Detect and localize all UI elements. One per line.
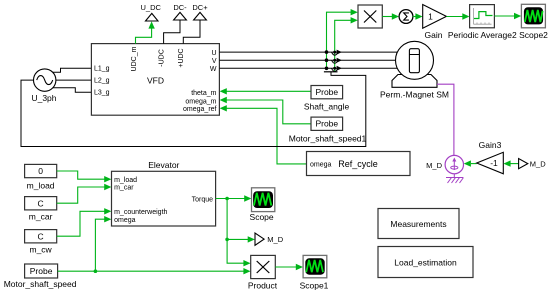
node dot M_D branch (225, 238, 229, 242)
wire Product to Scope1 (275, 266, 296, 268)
wire C to m_car (57, 187, 105, 203)
svg-text:M_D: M_D (267, 235, 283, 244)
svg-text:Scope2: Scope2 (519, 30, 548, 40)
port M_D (out) (255, 233, 264, 245)
svg-text:theta_m: theta_m (191, 90, 216, 97)
svg-text:Torque: Torque (192, 197, 214, 204)
wire to M_D outport (227, 238, 248, 240)
wire neutral loop from U_3ph around bottom to phase-line bar (21, 72, 366, 147)
svg-text:DC+: DC+ (192, 3, 208, 12)
wire DC- to VFD (164, 20, 180, 44)
block Periodic Average2 (470, 5, 495, 28)
wire C to m_counterweigth (57, 211, 105, 236)
wire phase W (219, 67, 398, 69)
svg-text:Probe: Probe (315, 119, 338, 129)
wire theta_m (green) (226, 90, 311, 92)
block Ref_cycle (307, 152, 411, 176)
svg-text:m_counterweigth: m_counterweigth (114, 209, 167, 216)
svg-text:Motor_shaft_speed: Motor_shaft_speed (4, 279, 77, 289)
wire DC+ to VFD (183, 20, 200, 44)
wire L1 from U_3ph to VFD (53, 68, 92, 72)
wire UDC_m to U_DC port (green) (136, 23, 152, 44)
wire M_D inport to gain3 (510, 163, 519, 165)
block Load_estimation (378, 247, 473, 278)
scope Scope1 (303, 255, 327, 277)
block Probe (Shaft_angle) (311, 86, 343, 99)
node dot torque wire (225, 197, 229, 201)
svg-text:m_cw: m_cw (29, 245, 52, 255)
svg-text:Periodic Average2: Periodic Average2 (448, 30, 517, 40)
block Measurements (378, 209, 459, 239)
wire torque branch down (227, 199, 244, 264)
svg-text:C: C (38, 231, 44, 241)
svg-text:DC-: DC- (173, 3, 187, 12)
block Product (251, 255, 276, 278)
wire tap A (green, under phase lines) (327, 12, 352, 68)
svg-text:m_car: m_car (114, 185, 134, 192)
svg-text:omega: omega (310, 162, 332, 169)
svg-text:Motor_shaft_speed1: Motor_shaft_speed1 (289, 133, 367, 143)
arrowheads on phase lines (337, 50, 342, 55)
svg-text:+UDC: +UDC (178, 48, 185, 67)
svg-text:Elevator: Elevator (148, 160, 179, 170)
svg-text:Ref_cycle: Ref_cycle (338, 159, 378, 169)
port U_DC (146, 13, 159, 21)
svg-text:Measurements: Measurements (390, 219, 446, 229)
ground (purple) (453, 174, 455, 177)
svg-text:m_car: m_car (29, 212, 53, 222)
wire gain3 to torque source (471, 163, 477, 165)
svg-text:L3_g: L3_g (94, 90, 110, 97)
port M_D (in) (519, 159, 528, 169)
svg-text:Gain: Gain (425, 30, 443, 40)
wire machine to torque source (purple) (437, 84, 454, 155)
block VFD (91, 44, 219, 116)
svg-text:-UDC: -UDC (159, 49, 166, 67)
wire phase V (219, 59, 396, 61)
wire Torque to Scope (216, 198, 245, 200)
wire omega branch (95, 219, 104, 271)
svg-text:Perm.-Magnet SM: Perm.-Magnet SM (380, 90, 449, 100)
svg-text:M_D: M_D (530, 160, 546, 169)
svg-text:0: 0 (38, 166, 43, 176)
svg-text:Probe: Probe (315, 87, 338, 97)
svg-text:Scope1: Scope1 (300, 280, 329, 290)
svg-text:Product: Product (248, 280, 278, 290)
gain Gain (423, 5, 447, 29)
block Elevator (112, 171, 216, 226)
block product X (power) (358, 5, 382, 28)
machine Perm.-Magnet SM (396, 41, 434, 79)
wire phase U (219, 51, 398, 53)
gain Gain3 (477, 152, 504, 174)
block constant 0 (25, 164, 57, 177)
svg-text:U: U (211, 50, 216, 57)
svg-text:L2_g: L2_g (94, 78, 110, 85)
block Probe (Motor_shaft_speed) (25, 264, 58, 278)
scope Scope (252, 188, 275, 212)
svg-text:C: C (38, 198, 44, 208)
svg-text:omega_ref: omega_ref (183, 106, 217, 113)
node dot probe wire (94, 269, 98, 273)
svg-text:Probe: Probe (30, 266, 53, 276)
wire gain to periodic average (446, 16, 463, 18)
port DC+ (194, 12, 207, 20)
wire neutral rail over green crossing (272, 146, 282, 148)
wire L2 from U_3ph to VFD (56, 79, 92, 81)
port DC- (174, 12, 187, 20)
wire omega_m (green) (226, 100, 311, 124)
node dots on phase lines (325, 50, 329, 54)
svg-text:omega: omega (114, 217, 136, 224)
svg-text:L1_g: L1_g (94, 65, 110, 72)
block constant C (m_car) (25, 197, 57, 210)
svg-text:W: W (210, 66, 217, 73)
wire 0 to m_load (57, 171, 105, 179)
wire probe to product input2 (green) (58, 270, 245, 272)
svg-text:VFD: VFD (147, 76, 164, 86)
block constant C (m_cw) (25, 230, 57, 243)
svg-text:UDC_m: UDC_m (131, 46, 138, 71)
block Probe (Motor_shaft_speed1) (311, 117, 343, 130)
source M_D torque (purple) (445, 155, 463, 173)
wire L3 from U_3ph to VFD (53, 88, 92, 93)
svg-text:1: 1 (428, 12, 433, 22)
scope Scope2 (521, 4, 545, 28)
node neutral bar (324, 71, 338, 73)
svg-text:Scope: Scope (250, 212, 274, 222)
svg-text:m_load: m_load (114, 177, 137, 184)
svg-text:U_DC: U_DC (140, 3, 161, 12)
svg-text:Shaft_angle: Shaft_angle (304, 102, 350, 112)
svg-text:-1: -1 (490, 158, 498, 168)
wire sum to gain (413, 16, 417, 18)
wire periodic average to scope2 (494, 15, 514, 17)
wire hop arcs at second tap (332, 52, 339, 55)
svg-text:Gain3: Gain3 (479, 140, 502, 150)
svg-text:m_load: m_load (27, 181, 55, 191)
sum block (399, 10, 413, 24)
wire tap B (green, under phase lines) (335, 20, 352, 72)
svg-text:Load_estimation: Load_estimation (394, 257, 457, 267)
svg-text:omega_m: omega_m (185, 99, 216, 106)
source U_3ph (34, 69, 56, 91)
svg-text:M_D: M_D (426, 161, 442, 170)
svg-text:U_3ph: U_3ph (31, 93, 56, 103)
machine pedestal (392, 75, 437, 88)
svg-text:V: V (212, 58, 217, 65)
wire X to sum (382, 16, 392, 18)
wire ref_cycle omega to VFD omega_ref (green) (226, 108, 307, 164)
